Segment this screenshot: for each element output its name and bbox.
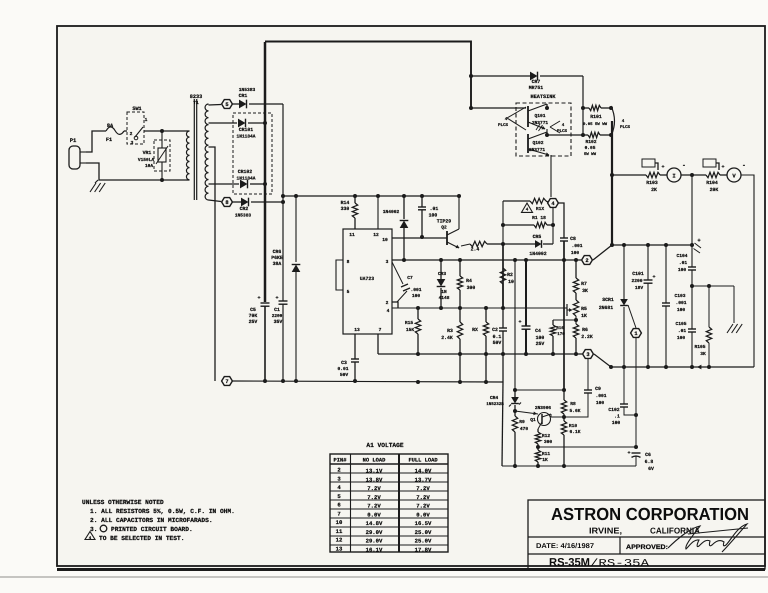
svg-text:8233: 8233 xyxy=(190,94,202,100)
svg-text:.01: .01 xyxy=(679,260,688,266)
capacitor C9 .001 100 xyxy=(565,386,607,417)
resistor R9 470 xyxy=(512,411,528,466)
svg-text:300: 300 xyxy=(544,439,553,445)
junction C4 top xyxy=(524,258,528,262)
svg-text:13.7V: 13.7V xyxy=(415,476,432,483)
svg-text:1N4002: 1N4002 xyxy=(529,251,546,257)
svg-text:R2: R2 xyxy=(507,272,513,278)
svg-text:7.2V: 7.2V xyxy=(416,485,430,492)
svg-text:12: 12 xyxy=(336,537,343,544)
capacitor C104 .01 100 xyxy=(676,245,696,286)
svg-text:13.1V: 13.1V xyxy=(366,468,383,475)
svg-text:+: + xyxy=(627,450,630,456)
op-amp U1 UA723 body xyxy=(343,229,392,334)
junction CR101 output xyxy=(263,121,267,125)
svg-text:3: 3 xyxy=(586,352,589,358)
svg-text:2N3771: 2N3771 xyxy=(532,120,549,126)
junction ground rail RX xyxy=(484,380,488,384)
svg-text:1: 1 xyxy=(145,117,148,123)
svg-text:2: 2 xyxy=(585,258,588,264)
svg-text:0.0V: 0.0V xyxy=(367,511,381,518)
svg-text:+: + xyxy=(652,274,655,280)
resistor R15 15K xyxy=(405,308,421,354)
svg-text:50V: 50V xyxy=(493,340,502,346)
svg-text:7.2V: 7.2V xyxy=(367,494,381,501)
svg-text:14.8V: 14.8V xyxy=(366,520,383,527)
svg-text:C4: C4 xyxy=(535,328,541,334)
svg-text:7.2V: 7.2V xyxy=(367,503,381,510)
transistor Q2 TIP29 xyxy=(437,197,460,248)
svg-text:C1: C1 xyxy=(274,307,280,313)
svg-text:2K: 2K xyxy=(651,187,657,193)
wire top bus xyxy=(265,42,471,109)
svg-text:100: 100 xyxy=(677,307,686,313)
junction Q101 collector xyxy=(545,106,549,110)
svg-text:7: 7 xyxy=(337,510,340,517)
svg-text:HEATSINK: HEATSINK xyxy=(531,94,557,100)
resistor R2 10 xyxy=(500,268,514,308)
transformer T1 primary winding xyxy=(186,131,190,180)
junction ground rail R3 xyxy=(458,380,462,384)
wire SW1 to transformer primary xyxy=(144,130,186,132)
svg-text:29.0V: 29.0V xyxy=(366,538,383,545)
svg-text:I: I xyxy=(672,173,675,180)
svg-text:16.5V: 16.5V xyxy=(415,520,432,527)
svg-text:RS-35M: RS-35M xyxy=(549,557,590,569)
svg-text:15K: 15K xyxy=(406,327,415,333)
wire R16 tap xyxy=(553,319,576,321)
capacitor C8 .001 100 xyxy=(560,236,583,256)
diode CR101 1N1184A xyxy=(237,119,265,140)
wire node3 to output common xyxy=(594,354,611,367)
junction R105 bottom xyxy=(707,365,711,369)
svg-text:R3: R3 xyxy=(447,328,453,334)
svg-text:NO LOAD: NO LOAD xyxy=(363,458,386,464)
svg-text:-: - xyxy=(682,162,686,169)
svg-text:1K: 1K xyxy=(581,313,587,319)
junction cap .01 bottom xyxy=(420,235,424,239)
diode CR3 1N4148 xyxy=(437,260,450,308)
junction C5 ground xyxy=(263,379,267,383)
resistor R16 170 xyxy=(550,320,565,354)
svg-text:.001: .001 xyxy=(410,287,421,293)
svg-text:PLCS: PLCS xyxy=(498,123,509,128)
junction R6 bottom xyxy=(574,352,578,356)
resistor R102 0.05 5W WW xyxy=(584,132,611,157)
svg-text:13: 13 xyxy=(354,327,360,333)
wire pin 12 stub xyxy=(377,196,379,229)
svg-text:3K: 3K xyxy=(582,288,588,294)
junction R101 right xyxy=(609,106,613,110)
svg-text:2N681: 2N681 xyxy=(599,305,614,311)
potentiometer R5 1K xyxy=(573,300,587,319)
junction emitter bus xyxy=(545,133,549,137)
wire C8 down (thick) xyxy=(563,241,565,390)
capacitor C103 .001 100 xyxy=(662,245,687,367)
svg-text:C3: C3 xyxy=(341,360,347,366)
svg-text:C8: C8 xyxy=(570,236,576,242)
wire loop left xyxy=(502,201,504,308)
svg-text:0.05 5W WW: 0.05 5W WW xyxy=(583,122,608,127)
svg-text:6.8: 6.8 xyxy=(645,459,654,465)
svg-text:C102: C102 xyxy=(608,407,619,413)
pin 11 xyxy=(349,232,355,238)
capacitor C3 0.01 50V xyxy=(337,334,359,381)
resistor R12 300 xyxy=(535,429,552,447)
svg-text:50V: 50V xyxy=(340,372,349,378)
heatsink dashed box xyxy=(516,94,571,156)
svg-text:R14: R14 xyxy=(341,200,350,206)
svg-text:MR751: MR751 xyxy=(529,85,544,91)
meter V xyxy=(720,162,746,182)
diode CR1 1N5383 xyxy=(232,87,283,108)
connector P1 xyxy=(69,137,86,169)
shunt box R104 xyxy=(703,159,719,170)
svg-text:.01: .01 xyxy=(678,328,687,334)
wire CR1/CR2 junction vertical xyxy=(282,104,284,301)
base feed arrow 4 PLCS xyxy=(498,107,526,130)
shunt box R103 xyxy=(642,159,658,170)
svg-text:R11: R11 xyxy=(542,451,551,457)
pin 13 label xyxy=(354,327,360,333)
wire R12 to C6 xyxy=(538,446,636,448)
svg-text:CR5: CR5 xyxy=(533,234,542,240)
ground at AC input xyxy=(90,180,105,192)
svg-text:170: 170 xyxy=(557,332,565,337)
junction C103 top xyxy=(664,243,668,247)
svg-text:10: 10 xyxy=(336,519,343,526)
wire output top rail xyxy=(612,244,692,246)
wire Q2 emitter xyxy=(461,244,470,246)
svg-text:C7: C7 xyxy=(407,275,413,281)
svg-text:TO BE SELECTED IN TEST.: TO BE SELECTED IN TEST. xyxy=(99,535,184,542)
svg-text:Q101: Q101 xyxy=(534,113,545,119)
svg-text:0.01: 0.01 xyxy=(337,366,348,372)
svg-text:25.0V: 25.0V xyxy=(415,529,432,536)
junction voltmeter branch xyxy=(690,173,694,177)
wire output down (thick) xyxy=(611,121,613,245)
svg-text:FULL LOAD: FULL LOAD xyxy=(408,458,438,464)
wire chassis ground branch xyxy=(692,286,734,323)
wire meter rail xyxy=(612,174,646,176)
wire node2 to output xyxy=(593,245,612,260)
junction R1 left xyxy=(501,223,505,227)
wire sense rail xyxy=(392,307,567,309)
svg-text:1N5383: 1N5383 xyxy=(235,213,252,219)
svg-text:100: 100 xyxy=(429,213,438,219)
svg-text:10: 10 xyxy=(508,279,514,285)
node 3 xyxy=(583,350,594,359)
output plus terminal xyxy=(690,237,701,253)
svg-text:300: 300 xyxy=(467,285,476,291)
junction R14 top xyxy=(353,194,357,198)
svg-text:2.4: 2.4 xyxy=(471,247,480,253)
svg-text:1N: 1N xyxy=(441,290,447,295)
wire secondary center tap xyxy=(209,147,216,381)
transistor Q102 2N3771 xyxy=(528,132,550,156)
warning triangle R1X xyxy=(522,203,545,213)
junction R105 top xyxy=(707,284,711,288)
wire meter I to R104 xyxy=(681,174,706,176)
resistor R14 330 xyxy=(341,196,358,229)
wire secondary tap CR101 xyxy=(209,122,238,124)
svg-text:R101: R101 xyxy=(590,114,602,120)
svg-text:14.0V: 14.0V xyxy=(415,468,432,475)
svg-text:5.6K: 5.6K xyxy=(569,408,580,414)
svg-text:2.4K: 2.4K xyxy=(441,335,453,341)
svg-text:-: - xyxy=(742,162,746,169)
junction SCR bottom xyxy=(622,365,626,369)
resistor R7 3K xyxy=(573,260,588,300)
junction C4 bottom xyxy=(524,352,528,356)
wire pin 7 down xyxy=(377,334,379,354)
node 8 xyxy=(222,198,233,207)
junction R7 top xyxy=(574,258,578,262)
junction R11 bottom xyxy=(536,464,540,468)
junction RX cross xyxy=(484,352,488,356)
svg-text:11: 11 xyxy=(336,528,343,535)
svg-text:RX: RX xyxy=(472,327,478,333)
svg-text:5W WW: 5W WW xyxy=(584,152,597,157)
svg-text:8: 8 xyxy=(347,259,350,265)
transistor Q1 2N3906 xyxy=(515,405,551,429)
svg-text:4148: 4148 xyxy=(439,295,450,301)
svg-text:UNLESS OTHERWISE NOTED: UNLESS OTHERWISE NOTED xyxy=(82,499,164,506)
svg-text:ASTRON CORPORATION: ASTRON CORPORATION xyxy=(551,504,749,524)
svg-text:CR4: CR4 xyxy=(490,395,499,401)
capacitor .01 100 (rail) xyxy=(418,196,438,237)
svg-text:P6KE: P6KE xyxy=(271,255,283,261)
node 4 xyxy=(548,199,559,208)
notes text xyxy=(82,499,235,542)
svg-text:PLCS: PLCS xyxy=(557,129,568,134)
svg-text:38A: 38A xyxy=(273,261,282,267)
diode CR6 P6KE 38A xyxy=(271,196,300,381)
svg-text:C5: C5 xyxy=(250,307,256,313)
svg-text:10A: 10A xyxy=(145,163,153,169)
junction R10 bottom xyxy=(562,464,566,468)
svg-text:R12: R12 xyxy=(542,433,551,439)
diode CR7 MR751 xyxy=(471,72,583,91)
capacitor C5 70K 25V xyxy=(249,295,270,381)
svg-text:CR1: CR1 xyxy=(239,93,248,99)
junction VR1 top xyxy=(160,129,164,133)
svg-text:T1: T1 xyxy=(193,100,199,106)
brace 4 PLCS xyxy=(611,106,631,136)
wire emitter bus xyxy=(547,129,588,135)
svg-text:.01: .01 xyxy=(430,206,439,212)
junction C104 bottom xyxy=(690,365,694,369)
svg-text:13: 13 xyxy=(336,545,343,552)
label T1 8233 xyxy=(190,94,202,106)
junction low rail tap xyxy=(281,194,285,198)
junction R2 top xyxy=(501,242,505,246)
junction C8 bottom xyxy=(562,258,566,262)
junction ground rail R15 xyxy=(416,380,420,384)
junction R15 bottom xyxy=(416,352,420,356)
svg-text:.001: .001 xyxy=(675,300,686,306)
wire CR7 to R102 xyxy=(582,76,584,135)
capacitor C2 0.1 50V xyxy=(492,308,507,382)
diode CR2 1N5383 xyxy=(232,198,283,219)
junction CR3 top xyxy=(439,258,443,262)
pin 12 xyxy=(373,232,379,238)
chassis ground symbol xyxy=(727,324,742,333)
pin 10 xyxy=(382,237,388,243)
svg-text:PRINTED CIRCUIT BOARD.: PRINTED CIRCUIT BOARD. xyxy=(111,526,193,533)
signature xyxy=(668,524,748,552)
svg-text:C6: C6 xyxy=(645,452,651,458)
svg-text:C2: C2 xyxy=(492,327,498,333)
output minus arrow xyxy=(697,365,701,370)
resistor R105 3K xyxy=(694,286,711,367)
resistor RX xyxy=(472,308,489,382)
diode CR102 1N1184A xyxy=(237,169,265,188)
svg-text:100: 100 xyxy=(412,293,421,299)
svg-text:VR1: VR1 xyxy=(143,150,152,156)
svg-text:CR7: CR7 xyxy=(532,79,541,85)
svg-text:2: 2 xyxy=(386,300,389,306)
svg-text:CR6: CR6 xyxy=(273,249,282,255)
junction R12/R11 xyxy=(536,445,540,449)
svg-text:11: 11 xyxy=(349,232,355,238)
wire P1 to fuse xyxy=(86,131,106,152)
wire secondary bottom tap xyxy=(209,200,222,202)
svg-text:0.05: 0.05 xyxy=(585,145,596,151)
resistor R10 6.1K xyxy=(561,417,580,466)
svg-text:DATE: 4/16/1987: DATE: 4/16/1987 xyxy=(536,542,594,550)
wire to R2 junction xyxy=(487,243,503,245)
svg-text:18V: 18V xyxy=(635,285,644,291)
junction CR7 tap xyxy=(469,74,473,78)
svg-text:R1X: R1X xyxy=(536,206,545,212)
meter I xyxy=(660,162,686,182)
svg-text:25V: 25V xyxy=(536,341,545,347)
svg-text:1K: 1K xyxy=(542,457,548,463)
svg-text:+: + xyxy=(518,319,521,325)
capacitor C6 6.8 6V xyxy=(627,450,654,472)
svg-text:/RS-35A: /RS-35A xyxy=(590,558,650,570)
svg-text:R103: R103 xyxy=(646,180,658,186)
wire Q102 emitter to node 4 xyxy=(550,155,552,197)
junction zener feed top xyxy=(513,258,517,262)
wire low voltage rail xyxy=(283,195,459,197)
junction pin12 rail xyxy=(376,194,380,198)
svg-text:+: + xyxy=(661,164,664,170)
junction Q2 collector rail xyxy=(457,194,461,198)
svg-text:2200: 2200 xyxy=(631,278,642,284)
svg-text:1: 1 xyxy=(634,331,637,337)
capacitor C105 .01 100 xyxy=(675,286,696,367)
svg-text:70K: 70K xyxy=(249,313,258,319)
svg-text:2: 2 xyxy=(130,131,133,137)
junction SCR top xyxy=(622,243,626,247)
svg-text:+: + xyxy=(275,295,278,301)
svg-text:35V: 35V xyxy=(274,319,283,325)
junction output common xyxy=(609,365,613,369)
svg-text:.001: .001 xyxy=(595,393,606,399)
svg-text:3: 3 xyxy=(131,140,134,146)
svg-text:8A: 8A xyxy=(107,123,114,129)
wire node1 down xyxy=(635,338,637,447)
svg-text:1N4002: 1N4002 xyxy=(383,209,400,215)
svg-text:+: + xyxy=(257,295,260,301)
svg-text:Q2: Q2 xyxy=(441,225,447,231)
svg-text:2.2K: 2.2K xyxy=(581,334,593,340)
junction C2 top xyxy=(501,306,505,310)
capacitor C102 .1 100 xyxy=(608,367,636,426)
junction C101 bottom xyxy=(646,365,650,369)
svg-text:17.8V: 17.8V xyxy=(415,546,432,553)
svg-text:25V: 25V xyxy=(249,319,258,325)
plus terminal meter I xyxy=(661,164,664,170)
svg-text:R105: R105 xyxy=(694,344,705,350)
svg-text:0.0V: 0.0V xyxy=(416,511,430,518)
wire reference rail xyxy=(392,259,581,261)
svg-text:16.1V: 16.1V xyxy=(366,546,383,553)
svg-text:5: 5 xyxy=(347,289,350,295)
svg-text:2200: 2200 xyxy=(272,314,283,319)
svg-text:Q1: Q1 xyxy=(530,417,536,423)
junction R3 cross xyxy=(458,352,462,356)
wire secondary top tap xyxy=(209,104,222,107)
junction C2 cross xyxy=(501,352,505,356)
capacitor C101 2200 18V xyxy=(631,245,655,367)
node 7 xyxy=(222,377,233,386)
svg-text:APPROVED:: APPROVED: xyxy=(626,544,668,551)
junction VR1 bottom xyxy=(160,178,164,182)
svg-text:3.: 3. xyxy=(90,526,97,533)
junction C6 top xyxy=(634,445,638,449)
svg-text:0.1: 0.1 xyxy=(493,334,502,340)
svg-text:Q102: Q102 xyxy=(532,140,543,146)
svg-text:C9: C9 xyxy=(595,386,601,392)
svg-text:2N3771: 2N3771 xyxy=(529,147,546,153)
capacitor C1 2200 35V xyxy=(272,295,288,381)
svg-text:1. ALL RESISTORS 5%, 0.5W, C.F: 1. ALL RESISTORS 5%, 0.5W, C.F. IN OHM. xyxy=(90,508,235,515)
wire node4 bottom xyxy=(552,208,554,244)
junction R4 top xyxy=(458,258,462,262)
wire output bottom rail xyxy=(611,366,754,368)
junction CR3 bottom xyxy=(439,306,443,310)
svg-text:CR102: CR102 xyxy=(238,169,253,175)
svg-text:8: 8 xyxy=(225,200,228,206)
pin 2 label xyxy=(386,300,389,306)
junction C102/node1 wire xyxy=(634,413,638,417)
svg-text:R102: R102 xyxy=(585,139,596,145)
node 1 xyxy=(631,329,642,338)
svg-text:R16: R16 xyxy=(556,326,564,331)
svg-text:100: 100 xyxy=(596,400,605,406)
junction R8/R10 xyxy=(562,415,566,419)
junction CR6 top xyxy=(294,194,298,198)
wire limiter bottom xyxy=(502,465,636,467)
svg-text:.001: .001 xyxy=(571,243,582,249)
svg-text:1N5383: 1N5383 xyxy=(239,87,256,93)
svg-text:CR2: CR2 xyxy=(240,206,249,212)
wire common rail xyxy=(378,353,582,355)
resistor 2.4 xyxy=(470,241,487,252)
svg-text:C103: C103 xyxy=(674,293,685,299)
resistor R8 5.6K xyxy=(561,390,580,417)
svg-text:+: + xyxy=(721,164,724,170)
svg-text:P1: P1 xyxy=(70,137,77,144)
wire node 4 to C8 xyxy=(558,203,564,238)
svg-text:25.0V: 25.0V xyxy=(415,538,432,545)
svg-text:V150LA: V150LA xyxy=(138,157,155,163)
svg-text:13.8V: 13.8V xyxy=(366,476,383,483)
table A1 VOLTAGE xyxy=(330,442,448,553)
